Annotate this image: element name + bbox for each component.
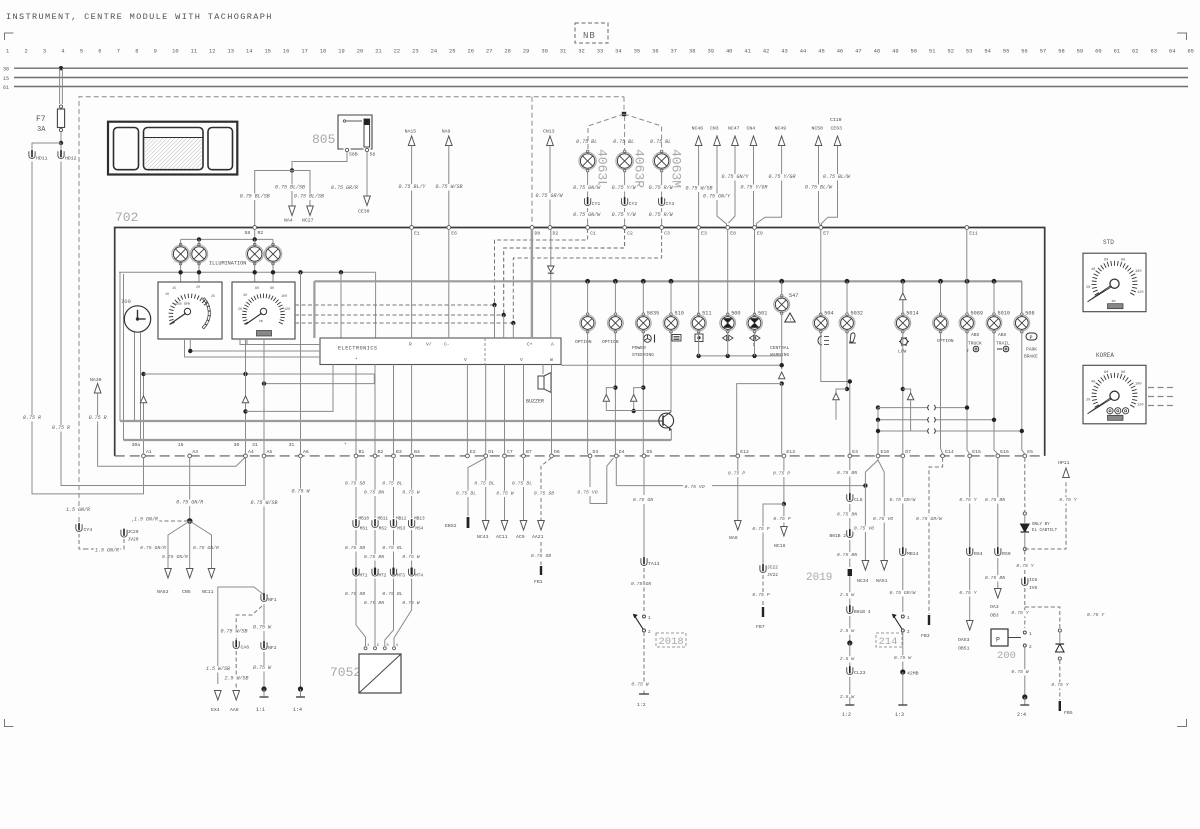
svg-text:37: 37 bbox=[671, 49, 677, 55]
splice E4 column bbox=[847, 640, 852, 645]
terminal B1 bbox=[354, 454, 358, 458]
svg-text:CN13: CN13 bbox=[543, 129, 555, 135]
svg-text:CI10: CI10 bbox=[830, 117, 842, 123]
arrow NA4 bbox=[289, 206, 296, 216]
svg-text:D5: D5 bbox=[647, 449, 653, 455]
svg-text:CE30: CE30 bbox=[358, 209, 370, 215]
svg-text:F7: F7 bbox=[36, 115, 46, 124]
label 0.75 P (E12) bbox=[727, 471, 747, 477]
label 0.75 GN/W upper bbox=[572, 185, 602, 192]
terminal E7 bbox=[819, 226, 823, 230]
svg-text:13: 13 bbox=[228, 49, 234, 55]
label 0.75 BN (E16) bbox=[984, 497, 1007, 503]
svg-text:508: 508 bbox=[1025, 311, 1034, 317]
connector MT1 bbox=[353, 569, 359, 576]
label 0.75 R (HD12) bbox=[51, 425, 72, 432]
svg-text:7052: 7052 bbox=[330, 665, 361, 680]
svg-text:0.75 Y: 0.75 Y bbox=[959, 590, 977, 596]
svg-text:0.75 BL/SB: 0.75 BL/SB bbox=[240, 194, 270, 200]
wire splice to NA53 bbox=[168, 521, 190, 568]
wire E6 to electronics bbox=[448, 229, 450, 338]
svg-text:511: 511 bbox=[702, 311, 711, 317]
wire CN3 to E8 bbox=[717, 146, 727, 227]
svg-text:HD12: HD12 bbox=[65, 156, 77, 162]
svg-text:RS9: RS9 bbox=[1002, 551, 1011, 557]
svg-text:0.75 GN: 0.75 GN bbox=[631, 581, 651, 587]
svg-text:0.75 P: 0.75 P bbox=[773, 516, 790, 522]
abs link 3 bbox=[878, 420, 928, 431]
svg-text:IV6: IV6 bbox=[1029, 585, 1038, 591]
svg-text:NC34: NC34 bbox=[857, 578, 869, 584]
svg-text:INSTRUMENT, CENTRE MODULE WITH: INSTRUMENT, CENTRE MODULE WITH TACHOGRAP… bbox=[6, 12, 273, 22]
wire E15 to RS4 bbox=[969, 458, 971, 547]
label 0.75 BN (2019) bbox=[836, 552, 859, 558]
lamp bus feed from electronics bbox=[313, 281, 315, 338]
label 0.75 GN/R (A3) bbox=[175, 500, 205, 507]
wire NF1 to NF2 bbox=[263, 604, 265, 641]
svg-text:0.75 W/SB: 0.75 W/SB bbox=[250, 500, 277, 506]
svg-text:*: * bbox=[355, 357, 358, 363]
svg-text:0.75 W: 0.75 W bbox=[402, 490, 420, 496]
svg-text:0.75 VO: 0.75 VO bbox=[873, 516, 893, 522]
diode above 5014 bbox=[900, 293, 906, 300]
wire illumination bus corner to electronics bbox=[375, 272, 377, 338]
gray bus upper bbox=[120, 420, 659, 422]
svg-text:80: 80 bbox=[1121, 371, 1125, 375]
label 2.5 W (1) bbox=[839, 592, 856, 598]
svg-text:1.5 W/SB: 1.5 W/SB bbox=[206, 666, 230, 672]
terminal EBS2 bbox=[467, 517, 470, 528]
wire A4 internal riser bbox=[245, 339, 247, 454]
wire illumination bus to electronics bbox=[340, 272, 342, 338]
label 0.75 BL/W (CE63) bbox=[822, 174, 852, 181]
wire electronics pin x551.5 bbox=[551, 365, 553, 455]
dashed JV22 to FB7 bbox=[762, 575, 764, 606]
svg-text:HP11: HP11 bbox=[1058, 460, 1070, 466]
svg-text:D4: D4 bbox=[619, 449, 625, 455]
label 0.75 P (E13) bbox=[772, 471, 792, 477]
svg-text:0.75 GN: 0.75 GN bbox=[633, 497, 653, 503]
wire bus left leg A bbox=[119, 272, 121, 421]
svg-text:53: 53 bbox=[966, 49, 972, 55]
corner mark top-right bbox=[1177, 33, 1187, 40]
label 0.75 GN lower bbox=[630, 581, 653, 587]
splice GN/R bbox=[187, 518, 193, 524]
svg-text:0.75 VO: 0.75 VO bbox=[685, 484, 705, 490]
wire MB14 to switch bbox=[902, 558, 904, 612]
svg-text:58B: 58B bbox=[349, 152, 358, 158]
tachograph gauge bbox=[158, 282, 222, 339]
terminal E6 bbox=[447, 226, 451, 230]
dashed wire NB drop bbox=[623, 97, 625, 113]
svg-text:42: 42 bbox=[763, 49, 769, 55]
label 0.75 W (A6) bbox=[290, 489, 311, 496]
svg-text:D2: D2 bbox=[553, 231, 559, 237]
svg-text:510: 510 bbox=[675, 311, 684, 317]
svg-text:E14: E14 bbox=[945, 449, 954, 455]
svg-text:E12: E12 bbox=[740, 449, 749, 455]
terminal A4 bbox=[244, 454, 248, 458]
icon 5089 bbox=[973, 346, 979, 352]
arrow OA3 bbox=[995, 589, 1002, 599]
terminal A1 bbox=[142, 454, 146, 458]
svg-text:0.75 BL/W: 0.75 BL/W bbox=[805, 185, 833, 191]
dashed wire to D8 bbox=[531, 97, 533, 226]
label 0.75 Y/W lower bbox=[610, 212, 637, 219]
svg-text:33: 33 bbox=[597, 49, 603, 55]
connector MT4 bbox=[409, 569, 415, 576]
svg-text:2: 2 bbox=[907, 630, 910, 635]
svg-text:31: 31 bbox=[252, 442, 258, 448]
arrow EX4 bbox=[215, 691, 222, 701]
label 0.75 W/SB (A5) bbox=[249, 500, 278, 507]
label 0.75 BL/W (NC50) bbox=[804, 185, 834, 192]
svg-text:709: 709 bbox=[121, 298, 131, 305]
svg-text:CENTRAL: CENTRAL bbox=[770, 345, 790, 351]
svg-text:B3: B3 bbox=[396, 449, 402, 455]
svg-text:E11: E11 bbox=[969, 231, 978, 237]
arrow NA51 bbox=[881, 561, 888, 571]
wire clock to gray bus B bbox=[140, 332, 142, 440]
label 2.5 W (3) bbox=[839, 656, 856, 662]
svg-text:E6: E6 bbox=[451, 231, 457, 237]
wire electronics pin x393.5 bbox=[393, 365, 395, 455]
ground E4 column bbox=[849, 697, 851, 705]
svg-text:MB10: MB10 bbox=[359, 517, 370, 522]
label 0.75 BL (AC9) bbox=[511, 481, 534, 487]
svg-text:MB14: MB14 bbox=[907, 551, 919, 557]
label 0.75 Y/W upper bbox=[610, 185, 637, 192]
svg-text:38: 38 bbox=[689, 49, 695, 55]
wire NA15 to E1 bbox=[411, 146, 413, 227]
svg-text:5835: 5835 bbox=[647, 311, 659, 317]
label 0.75 GR/W (E14) bbox=[915, 516, 943, 522]
svg-text:B4: B4 bbox=[414, 449, 420, 455]
svg-text:R2: R2 bbox=[258, 230, 264, 236]
svg-text:15: 15 bbox=[3, 76, 9, 82]
svg-text:24: 24 bbox=[431, 49, 437, 55]
wire electronics pin x356 bbox=[355, 365, 357, 455]
lamp 508 at x1021.8 bbox=[1021, 281, 1023, 313]
svg-text:0.75 GR/W: 0.75 GR/W bbox=[890, 497, 917, 503]
svg-text:FB7: FB7 bbox=[756, 624, 765, 630]
svg-text:10: 10 bbox=[165, 293, 169, 297]
svg-text:40: 40 bbox=[726, 49, 732, 55]
wire MT1 to 7052 pin1 bbox=[356, 585, 366, 646]
diode on 547 drop bbox=[779, 372, 785, 379]
connector B01B 4 bbox=[847, 606, 853, 613]
svg-text:10: 10 bbox=[172, 49, 178, 55]
wire splice to CN5 bbox=[189, 521, 191, 568]
svg-text:61: 61 bbox=[1114, 49, 1120, 55]
icon 501 arrows bbox=[750, 335, 754, 341]
label 0.75 R (HD11) bbox=[22, 415, 43, 422]
svg-text:BUZZER: BUZZER bbox=[526, 399, 544, 405]
svg-text:0.75 SB: 0.75 SB bbox=[345, 481, 365, 487]
label 0.75 GN/Y (CN3) bbox=[702, 194, 732, 201]
svg-text:100: 100 bbox=[281, 295, 287, 299]
svg-text:3A: 3A bbox=[37, 126, 46, 134]
wire D1 to NC43 bbox=[485, 458, 487, 520]
lamp 501 at x754.5 bbox=[747, 315, 763, 331]
svg-text:0.75 Y: 0.75 Y bbox=[1059, 497, 1077, 503]
diode on A1 wire bbox=[140, 396, 146, 403]
svg-text:TRAIL: TRAIL bbox=[996, 341, 1010, 347]
component box 2018 bbox=[656, 633, 686, 647]
transistor Q1 bbox=[659, 413, 674, 428]
svg-text:E5: E5 bbox=[1027, 449, 1033, 455]
svg-text:D8: D8 bbox=[535, 231, 541, 237]
wire E9 to lamp 501 bbox=[754, 229, 756, 314]
illumination lamp 2 bbox=[198, 239, 200, 245]
svg-text:0.75 BL: 0.75 BL bbox=[382, 591, 402, 597]
icon power steering bbox=[644, 335, 652, 343]
svg-text:0.75 GN/R: 0.75 GN/R bbox=[176, 500, 203, 506]
diode loop D5 bbox=[634, 388, 644, 394]
svg-text:65: 65 bbox=[1187, 49, 1193, 55]
wire E10 split bbox=[865, 458, 878, 560]
svg-text:26: 26 bbox=[468, 49, 474, 55]
icon 510 beam bbox=[672, 335, 681, 342]
lamp 4063L bbox=[579, 152, 596, 169]
connector NF2 bbox=[261, 642, 267, 649]
lamp 5835 at x643.3 bbox=[642, 281, 644, 313]
svg-text:40: 40 bbox=[243, 294, 247, 298]
svg-text:2: 2 bbox=[648, 630, 651, 635]
wire CL23 to ground bbox=[849, 677, 851, 697]
svg-text:1:4: 1:4 bbox=[293, 707, 302, 713]
label 0.75 Y (E15) bbox=[958, 497, 978, 503]
svg-text:20: 20 bbox=[196, 286, 200, 290]
wire E12 to NA8 bbox=[737, 458, 739, 520]
svg-text:63: 63 bbox=[1151, 49, 1157, 55]
dashed NF1 to CA6 bbox=[236, 606, 262, 640]
terminal C1 bbox=[586, 226, 590, 230]
label 0.75 R/W upper bbox=[647, 185, 674, 192]
wire electronics pin x411.6 bbox=[411, 365, 413, 455]
svg-text:200: 200 bbox=[997, 650, 1016, 662]
svg-text:0.75 R: 0.75 R bbox=[89, 415, 107, 421]
svg-text:W: W bbox=[550, 357, 553, 363]
svg-text:PARK: PARK bbox=[1026, 347, 1037, 353]
svg-text:46: 46 bbox=[837, 49, 843, 55]
pin 58B bbox=[345, 148, 348, 151]
wire HD11 down-left column bbox=[32, 162, 144, 494]
dashed link to JC20 bbox=[132, 520, 190, 522]
wire E11 to bus bbox=[966, 229, 968, 281]
svg-text:805: 805 bbox=[312, 132, 335, 147]
svg-text:OPTION: OPTION bbox=[575, 339, 592, 345]
wire 5032 drop bbox=[846, 332, 848, 389]
lamp OPTION at x615.4 bbox=[614, 281, 616, 313]
label 0.75 Y (RS4) bbox=[958, 590, 978, 596]
label 0.75 SB (AA21) bbox=[533, 491, 556, 497]
svg-text:POWER: POWER bbox=[632, 345, 646, 351]
svg-text:OPTION: OPTION bbox=[602, 339, 619, 345]
diode loop 5032 bbox=[836, 389, 847, 393]
wire NA9 to E6 bbox=[448, 146, 450, 227]
dashed program rows C1-C3 bbox=[495, 229, 588, 305]
svg-text:1.5 GN/R: 1.5 GN/R bbox=[134, 517, 158, 523]
svg-text:504: 504 bbox=[824, 311, 833, 317]
svg-text:0.75 W: 0.75 W bbox=[631, 682, 649, 688]
svg-text:20: 20 bbox=[1086, 398, 1090, 402]
wire bus left leg B bbox=[123, 274, 125, 440]
svg-text:120: 120 bbox=[1137, 291, 1143, 295]
label 0.75 BL/SB (NA4) bbox=[274, 185, 307, 192]
svg-text:0.75 BN: 0.75 BN bbox=[837, 470, 857, 476]
label 0.75 BN (RS9) bbox=[984, 575, 1007, 581]
wire A6 to ground bbox=[300, 458, 302, 689]
svg-text:0.75 Y: 0.75 Y bbox=[959, 497, 977, 503]
connector CY4 bbox=[76, 524, 82, 531]
svg-text:NC47: NC47 bbox=[728, 126, 740, 132]
wire diode to circle bbox=[1024, 532, 1026, 548]
svg-text:CE63: CE63 bbox=[831, 126, 843, 132]
wire D1 to EBS2 bbox=[468, 458, 486, 516]
svg-text:5010: 5010 bbox=[998, 311, 1010, 317]
label 0.75 P (NC16) bbox=[772, 516, 792, 522]
svg-text:V/: V/ bbox=[426, 342, 432, 348]
svg-text:547: 547 bbox=[789, 293, 798, 299]
label 0.75 BN (E4) bbox=[836, 470, 859, 476]
svg-text:MS2: MS2 bbox=[379, 527, 387, 532]
svg-text:120: 120 bbox=[284, 308, 290, 312]
svg-text:0.75 GN/Y: 0.75 GN/Y bbox=[721, 174, 749, 180]
svg-text:23: 23 bbox=[412, 49, 418, 55]
icon 500 arrows bbox=[723, 335, 727, 341]
svg-text:7: 7 bbox=[117, 49, 120, 55]
svg-text:1.5 GN/R: 1.5 GN/R bbox=[95, 548, 119, 554]
svg-text:2.5 W: 2.5 W bbox=[840, 656, 856, 662]
svg-text:1:2: 1:2 bbox=[637, 702, 646, 708]
svg-text:EBS2: EBS2 bbox=[445, 523, 457, 529]
wire electronics pin x504.5 bbox=[504, 365, 506, 455]
wire E4 to CL8 bbox=[849, 458, 851, 493]
svg-text:20: 20 bbox=[1086, 286, 1090, 290]
wire splice to HD11 bbox=[32, 143, 61, 151]
fuse F7 3A bbox=[59, 105, 62, 108]
svg-text:36: 36 bbox=[652, 49, 658, 55]
connector RS4 bbox=[967, 548, 973, 555]
svg-text:JV22: JV22 bbox=[767, 572, 778, 578]
svg-text:NC16: NC16 bbox=[774, 543, 786, 549]
svg-text:214: 214 bbox=[879, 636, 898, 648]
label 0.75 W/SB bbox=[434, 184, 464, 191]
svg-text:OA53: OA53 bbox=[958, 637, 970, 643]
svg-text:*: * bbox=[344, 442, 347, 448]
wire 4063R to CY2 bbox=[624, 171, 626, 198]
label 2.5 W (4) bbox=[839, 694, 856, 700]
svg-text:B2: B2 bbox=[378, 449, 384, 455]
svg-text:4063M: 4063M bbox=[669, 149, 684, 188]
dashed wire to lamp 4063L bbox=[588, 114, 624, 151]
electronics module bbox=[320, 338, 561, 365]
svg-text:0.75 BL: 0.75 BL bbox=[613, 139, 634, 145]
label 0.75 SB (FB1) bbox=[530, 553, 553, 559]
svg-text:E13: E13 bbox=[786, 449, 795, 455]
svg-text:E3: E3 bbox=[701, 231, 707, 237]
svg-text:FB1: FB1 bbox=[534, 579, 543, 585]
wire electronics pin x375 bbox=[374, 365, 376, 455]
svg-text:BRAKE: BRAKE bbox=[1024, 354, 1038, 360]
svg-text:E15: E15 bbox=[972, 449, 981, 455]
connector CL23 bbox=[847, 667, 853, 674]
lamp 511 at x698.6 bbox=[691, 315, 707, 331]
wire 500 bottom bbox=[727, 332, 729, 356]
svg-text:x100: x100 bbox=[174, 302, 182, 306]
diode EL CABTILT bbox=[1021, 524, 1030, 532]
terminal B2 bbox=[373, 454, 377, 458]
dashed CA6 down bbox=[235, 651, 237, 692]
dashed wire to lamp 4063M bbox=[624, 114, 662, 151]
terminal E3 bbox=[697, 226, 701, 230]
long wire 0.75 VO to NC34 bbox=[615, 458, 617, 486]
wire MT3 to 7052 pin3 bbox=[385, 585, 394, 646]
svg-text:0.75 W/SB: 0.75 W/SB bbox=[435, 184, 462, 190]
svg-text:MT2: MT2 bbox=[379, 574, 387, 579]
svg-text:NA4: NA4 bbox=[284, 218, 293, 224]
svg-text:V: V bbox=[464, 357, 467, 363]
wire CN13 to D2 bbox=[549, 146, 551, 227]
svg-text:A5: A5 bbox=[267, 449, 273, 455]
connector JC22/JV22 bbox=[760, 565, 766, 572]
wire 200 to ground bbox=[1024, 647, 1026, 697]
wire MT4 to 7052 pin4 bbox=[394, 585, 412, 646]
label 0.75 W upper bbox=[252, 625, 272, 632]
lamp OPTION at x587.6 bbox=[587, 281, 589, 313]
wire 5014 to D7 bbox=[902, 332, 904, 454]
svg-text:A1: A1 bbox=[146, 449, 152, 455]
pin 58 bbox=[365, 148, 368, 151]
svg-text:0.75 BN: 0.75 BN bbox=[364, 490, 384, 496]
svg-text:40: 40 bbox=[1091, 380, 1095, 384]
svg-text:100: 100 bbox=[1135, 270, 1141, 274]
dashed E14 to FB3 bbox=[929, 458, 943, 614]
terminal D1 bbox=[484, 454, 488, 458]
terminal E16 bbox=[996, 454, 1000, 458]
svg-text:500: 500 bbox=[731, 311, 740, 317]
wire splice to HD12 bbox=[60, 143, 62, 151]
ground D7 column bbox=[902, 697, 904, 705]
svg-text:C+: C+ bbox=[527, 342, 533, 348]
wire 510 lamp to collector bbox=[670, 332, 672, 412]
svg-text:MS3: MS3 bbox=[397, 527, 405, 532]
wire 58 to CE30 bbox=[366, 152, 368, 196]
svg-text:ONLY BY: ONLY BY bbox=[1032, 523, 1050, 527]
dashed TA13 to switch bbox=[643, 568, 645, 612]
svg-text:43: 43 bbox=[781, 49, 787, 55]
terminal A6 bbox=[299, 454, 303, 458]
svg-text:0.75 R/W: 0.75 R/W bbox=[649, 185, 674, 191]
svg-text:P: P bbox=[1030, 335, 1033, 341]
svg-text:52: 52 bbox=[947, 49, 953, 55]
connector HD11 bbox=[29, 151, 35, 158]
wire 547 feed bbox=[781, 281, 783, 295]
svg-text:2.5 W: 2.5 W bbox=[840, 628, 856, 634]
svg-text:EL CABTILT: EL CABTILT bbox=[1032, 529, 1058, 533]
ruler column numbers 1-65 bbox=[6, 49, 1194, 55]
svg-text:0.75 BN: 0.75 BN bbox=[364, 554, 384, 560]
wire RS4 to OA53 bbox=[969, 558, 971, 620]
svg-text:5014: 5014 bbox=[906, 311, 918, 317]
wire D7 to MB14 bbox=[902, 458, 904, 547]
svg-text:60: 60 bbox=[255, 287, 259, 291]
svg-text:CN3: CN3 bbox=[710, 126, 719, 132]
wire E3 to lamp 511 bbox=[698, 229, 700, 314]
svg-text:NC11: NC11 bbox=[202, 589, 214, 595]
connector MB14 bbox=[900, 548, 906, 555]
